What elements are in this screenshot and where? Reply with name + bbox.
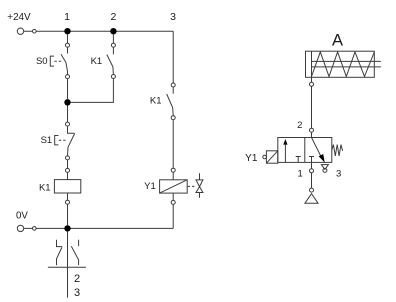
valve pictogram link (dashed) — [188, 185, 196, 187]
wire top rail — [24, 30, 174, 32]
valve left box blocked port — [296, 157, 301, 163]
tube cylinder to valve — [311, 86, 313, 128]
contact K1 (NO, rung2) — [91, 43, 116, 78]
contact cross-reference K1 — [48, 232, 86, 299]
wire K1 coil to 0V rail — [67, 204, 69, 225]
svg-text:1: 1 — [64, 11, 70, 23]
svg-text:Y1: Y1 — [245, 153, 258, 164]
node junction rung1/rung2 — [64, 99, 70, 105]
cylinder A port pin — [311, 77, 313, 82]
wire junction to S1 — [67, 106, 69, 123]
cylinder A return spring — [312, 52, 375, 77]
supply pin — [310, 188, 314, 192]
svg-text:S1: S1 — [41, 135, 53, 146]
pushbutton S0 (NC) — [36, 43, 70, 78]
supply line — [311, 173, 313, 188]
exhaust port 3 — [321, 165, 328, 170]
svg-text:A: A — [332, 32, 343, 50]
node junction rung2 top — [110, 28, 116, 34]
svg-text:S0: S0 — [36, 56, 48, 67]
svg-text:3: 3 — [336, 169, 341, 180]
compressed air source — [305, 194, 318, 204]
terminal 0V — [17, 225, 23, 231]
valve right box flow path 2-3 — [312, 138, 322, 157]
valve left box flow arrow — [284, 143, 286, 162]
svg-text:2: 2 — [74, 273, 80, 285]
svg-text:0V: 0V — [16, 210, 28, 221]
wire rung3 contact to Y1 coil — [172, 120, 174, 169]
wire rung2 down and left to junction — [71, 79, 114, 103]
solenoid Y1 — [245, 151, 278, 164]
valve pictogram (hourglass) — [196, 173, 203, 198]
valve V1 body — [278, 138, 332, 163]
svg-text:2: 2 — [297, 120, 302, 131]
contact K1 (NO, rung3) — [150, 83, 175, 120]
svg-text:+24V: +24V — [7, 12, 31, 23]
wire 0V rail — [24, 227, 174, 229]
terminal +24V — [17, 28, 23, 34]
wire rung3 down from rail — [172, 31, 174, 83]
wire rung1 top — [67, 34, 69, 43]
relay coil K1 — [39, 168, 81, 204]
svg-text:K1: K1 — [39, 182, 51, 193]
svg-text:K1: K1 — [91, 56, 103, 67]
cylinder A body — [306, 51, 375, 77]
svg-text:Y1: Y1 — [144, 181, 156, 192]
valve right box blocked port 1 — [309, 157, 314, 163]
svg-text:1: 1 — [298, 169, 303, 180]
svg-text:3: 3 — [170, 11, 176, 23]
pin circle +24V — [33, 29, 37, 33]
solenoid coil Y1 — [144, 168, 187, 204]
pin circle 0V — [33, 227, 37, 231]
wire rung1 mid — [67, 79, 69, 100]
wire rung2 top — [112, 34, 114, 43]
svg-text:3: 3 — [74, 287, 80, 299]
valve return spring — [332, 145, 343, 156]
svg-text:2: 2 — [110, 11, 116, 23]
wire S1 to K1 coil — [67, 160, 69, 169]
valve port 1 pin — [311, 162, 313, 168]
valve port 2 pin — [310, 128, 314, 132]
wire Y1 coil to 0V rail — [172, 204, 174, 228]
node junction 0V rail — [64, 225, 70, 231]
node junction rung1 top — [64, 28, 70, 34]
cylinder A piston rod — [312, 61, 381, 67]
cylinder A piston — [311, 51, 313, 77]
svg-text:K1: K1 — [150, 96, 162, 107]
pushbutton S1 (NO) — [41, 122, 75, 160]
